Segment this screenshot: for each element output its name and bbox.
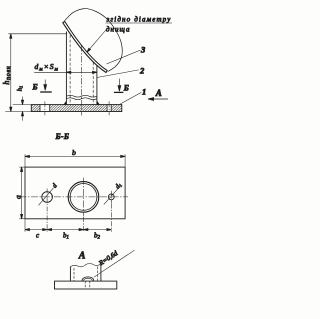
extension lines below plan: [24, 219, 26, 232]
weld fillet right: [97, 101, 100, 105]
svg-text:2: 2: [139, 65, 145, 75]
svg-text:a: a: [14, 195, 23, 199]
dished head 3 (rim band, edge view): [63, 21, 107, 72]
pipe break (wavy top): [70, 263, 100, 266]
bottom dimension line c / b1 / b2: [25, 229, 111, 231]
svg-text:3: 3: [140, 44, 146, 54]
svg-text:Б: Б: [32, 83, 38, 92]
section mark B left: [40, 80, 52, 93]
horizontal centerline (plan): [20, 196, 129, 198]
vertical centerline left hole: [46, 189, 48, 207]
cylinder 2 (pipe) outer walls: [66, 32, 97, 105]
svg-text:1: 1: [142, 86, 146, 96]
vertical centerline right hole: [110, 191, 112, 203]
overall height extension line (top of head): [8, 33, 67, 35]
weld fillet left: [64, 101, 67, 105]
leader 3 (dished head): [107, 50, 141, 64]
extension lines for b dimension: [24, 154, 26, 167]
extension lines for a dimension: [19, 166, 25, 168]
svg-text:А: А: [78, 251, 86, 262]
hole d1 (plan): [108, 194, 114, 200]
dimension dm x Sm (pipe): [34, 71, 97, 73]
dimension h_povn (overall height): [10, 34, 12, 112]
vertical centerline big circle: [83, 178, 85, 217]
svg-text:b: b: [72, 148, 76, 157]
dimension b: [25, 155, 125, 157]
weld bead dome: [82, 277, 94, 281]
note leader (according to bottom diameter): [86, 23, 172, 53]
leader 1 (base plate): [120, 92, 141, 104]
cylinder bore hidden lines: [70, 35, 93, 104]
svg-text:h1: h1: [16, 86, 23, 92]
view A arrow (right side): [148, 98, 168, 101]
dimension a: [21, 167, 23, 219]
svg-text:днища: днища: [106, 25, 130, 33]
leader d1: [104, 188, 119, 205]
hole d (plan): [42, 192, 53, 203]
hole centerline right (front view): [108, 101, 110, 115]
break (wavy) lines in pipe: [66, 95, 96, 97]
plate bottom extension line: [5, 111, 31, 113]
leader 2 (pipe): [97, 70, 139, 78]
hole hidden lines through plate: [85, 281, 90, 289]
svg-text:Б-Б: Б-Б: [55, 132, 70, 141]
base plate 1 (sectioned, hatched): [31, 104, 122, 112]
svg-text:А: А: [155, 88, 162, 98]
svg-text:згідно діаметру: згідно діаметру: [106, 15, 172, 23]
hole centerline left (front view): [44, 101, 46, 115]
leader d: [39, 188, 54, 205]
pipe bore hidden (view A): [74, 267, 97, 282]
dished head face (ellipse arc): [65, 9, 123, 72]
pipe outer circle (plan): [68, 182, 99, 213]
plate outline (plan): [25, 167, 125, 219]
section mark B right: [114, 79, 124, 93]
cylinder centerline: [80, 45, 82, 116]
dimension h1 (plate thickness): [21, 97, 23, 121]
plate (view A): [55, 281, 117, 289]
pipe block (view A): [69, 267, 71, 282]
pipe bore circle (plan): [70, 184, 97, 211]
leader R=0.6d: [94, 250, 135, 277]
plate top extension line: [13, 104, 32, 106]
svg-text:Б: Б: [123, 84, 129, 93]
